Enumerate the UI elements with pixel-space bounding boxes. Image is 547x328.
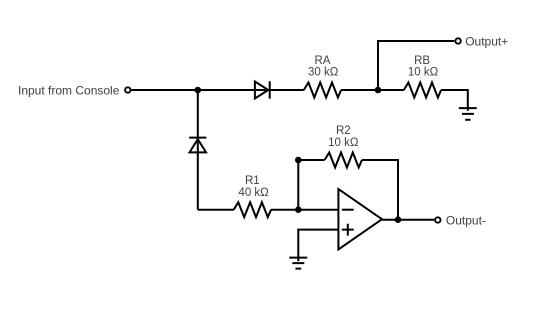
- svg-text:10 kΩ: 10 kΩ: [408, 66, 439, 78]
- svg-text:40 kΩ: 40 kΩ: [238, 187, 269, 199]
- svg-text:RB: RB: [414, 55, 430, 67]
- svg-text:Input from Console: Input from Console: [18, 83, 120, 97]
- svg-text:Output-: Output-: [446, 214, 486, 228]
- svg-text:10 kΩ: 10 kΩ: [328, 137, 359, 149]
- svg-text:R2: R2: [336, 125, 351, 137]
- svg-text:RA: RA: [315, 55, 331, 67]
- svg-text:Output+: Output+: [465, 34, 508, 48]
- svg-text:30 kΩ: 30 kΩ: [308, 66, 339, 78]
- svg-text:R1: R1: [245, 175, 260, 187]
